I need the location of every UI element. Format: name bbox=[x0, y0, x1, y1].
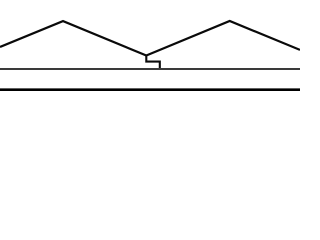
right peak outline (valley vertex up to second apex, down to right edge) bbox=[146, 21, 300, 56]
valley step: vertical drop, horizontal ledge, vertical drop to baseline bbox=[146, 55, 160, 71]
lower baseline (full width) bbox=[0, 88, 300, 91]
left peak outline (left edge up to first apex, down to valley vertex) bbox=[0, 21, 146, 55]
upper baseline (full width) bbox=[0, 68, 300, 70]
